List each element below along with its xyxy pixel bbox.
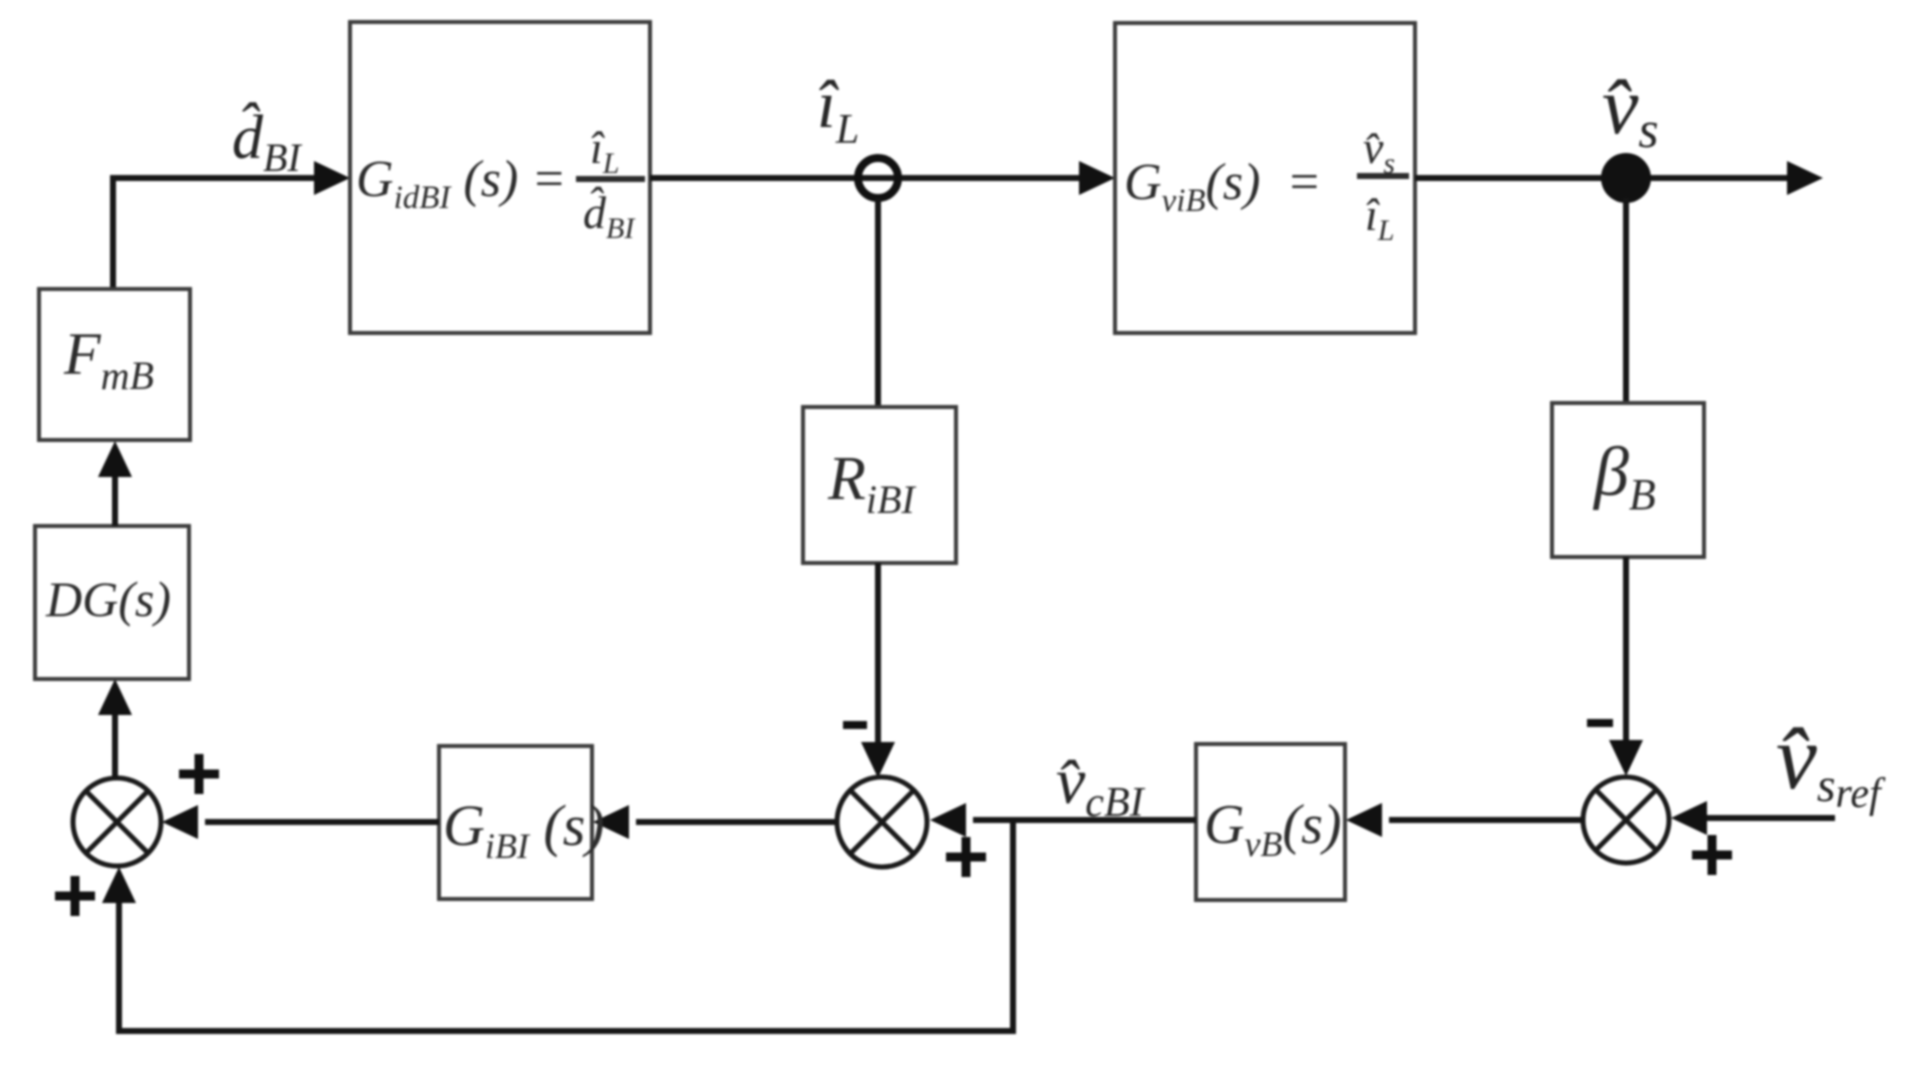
right summing junction [1583, 777, 1669, 863]
arrowhead into G_vB right edge [1346, 803, 1382, 837]
arrowhead down into middle junction [861, 742, 895, 778]
wire right junction to G_vB [1389, 817, 1583, 823]
wire from F_mB top to G_idBI input (corner at top-left) [113, 178, 318, 289]
svg-text:GidBI (s) =: GidBI (s) = [356, 151, 566, 216]
fraction bar [1357, 173, 1409, 179]
wire v_s dot down to beta_B [1623, 198, 1629, 403]
arrowhead into G_viB left edge [1079, 161, 1115, 195]
block G_vB(s) [1196, 744, 1345, 900]
node v_s dot [1601, 153, 1651, 203]
wire G_viB output to right output arrow [1415, 175, 1791, 181]
arrowhead into G_iBI right edge [593, 805, 629, 839]
fraction bar [576, 176, 645, 182]
arrowhead down into right junction [1609, 740, 1643, 776]
feedback wire up into left junction bottom [116, 903, 122, 1034]
svg-text:DG(s): DG(s) [45, 571, 171, 627]
middle summing junction [837, 777, 927, 867]
wire left junction up to DG(s) [112, 713, 118, 778]
block G_viB(s) = vs/iL [1115, 23, 1415, 333]
bottom feedback wire [119, 1028, 1013, 1034]
arrowhead into middle junction right edge [930, 803, 966, 837]
arrowhead into right junction right edge [1671, 801, 1707, 835]
input wire v_s_ref into right junction [1703, 815, 1835, 821]
plus sign at left junction bottom input [55, 876, 95, 916]
block G_idBI(s) = iL/dBI [350, 22, 650, 333]
output arrowhead [1787, 161, 1823, 195]
wire G_iBI to left junction [205, 819, 439, 825]
wire R_iBI down to middle summing junction [875, 563, 881, 745]
block F_mB [39, 289, 190, 440]
wire G_idBI output to G_viB input [650, 175, 1083, 181]
wire i_L node down to R_iBI [875, 198, 881, 407]
block R_iBI [803, 407, 956, 563]
minus sign at right junction [1587, 719, 1613, 727]
node i_L circle [858, 158, 898, 198]
branch wire from v_cBI node down to bottom feedback wire [1010, 820, 1016, 1034]
minus sign at middle junction [843, 721, 867, 729]
plus sign at right junction input [1692, 835, 1732, 875]
arrowhead into left junction right edge [162, 805, 198, 839]
arrowhead into G_idBI left edge [314, 161, 350, 195]
svg-text:GviB(s) =: GviB(s) = [1124, 154, 1322, 219]
wire G_vB to middle junction with v_cBI label [973, 817, 1196, 823]
arrowhead up into F_mB bottom [98, 441, 132, 477]
block G_iBI(s) [439, 746, 592, 899]
arrowhead up into left junction bottom [102, 867, 136, 903]
block DG(s) [35, 526, 189, 679]
wire middle junction to G_iBI [636, 819, 836, 825]
wire DG(s) up to F_mB [112, 477, 118, 526]
arrowhead up into DG(s) bottom [98, 679, 132, 715]
plus sign at middle junction right input [946, 837, 986, 877]
left summing junction [73, 778, 161, 866]
plus sign at left junction right input [179, 754, 219, 794]
block beta_B [1552, 403, 1704, 557]
wire beta_B down to right summing junction [1623, 557, 1629, 741]
